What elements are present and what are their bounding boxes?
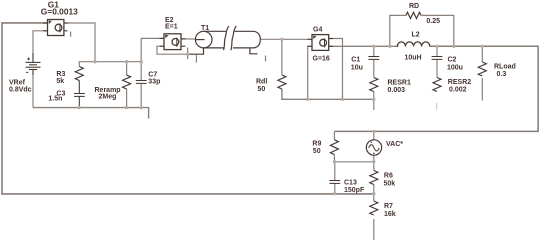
svg-text:G=16: G=16	[313, 56, 330, 63]
resistor RLoad	[478, 62, 486, 76]
svg-text:R6: R6	[384, 173, 393, 180]
resistor R7	[370, 201, 378, 215]
wire T1 A- pin step	[188, 48, 204, 54]
wire E2 out to T1	[181, 38, 196, 40]
svg-text:10u: 10u	[351, 65, 363, 72]
wire RD left leg	[390, 15, 406, 46]
wire battery bottom to lower bus	[32, 70, 34, 108]
svg-text:R3: R3	[56, 71, 65, 78]
resistor R6	[370, 171, 378, 185]
wire G1 output down to rail	[64, 23, 95, 62]
svg-text:R9: R9	[312, 140, 321, 147]
svg-text:RESR2: RESR2	[448, 79, 471, 86]
resistor RESR1	[370, 78, 378, 92]
wire dangling stub right of T1	[265, 56, 267, 62]
wire RLoad top stub	[481, 46, 483, 62]
capacitor C2	[432, 57, 443, 60]
svg-text:VRef: VRef	[9, 79, 26, 86]
wire dangling stub at E2 out-	[187, 48, 189, 60]
wire C13 bottom stub	[334, 183, 336, 193]
wire T1 B+ to G4 input	[260, 38, 312, 40]
svg-text:RD: RD	[409, 3, 419, 10]
wire R6 stubs	[373, 162, 375, 171]
wire VAC top	[373, 131, 375, 139]
svg-text:G4: G4	[313, 27, 322, 34]
svg-text:Rdl: Rdl	[256, 78, 267, 85]
capacitor C13	[329, 181, 340, 184]
wire G1 dangling output stub	[70, 32, 72, 37]
wire Rdl bottom + ground bus A	[282, 89, 374, 99]
resistor RESR2	[433, 78, 441, 92]
wire left edge loop	[2, 23, 374, 194]
svg-text:2Meg: 2Meg	[99, 93, 117, 100]
resistor RD horizontal	[406, 12, 421, 18]
wire C13 top stub	[334, 162, 336, 180]
svg-text:C2: C2	[448, 57, 457, 64]
wire RESR1 bottom stub	[373, 92, 375, 100]
wire G1 minus input to battery	[33, 31, 48, 62]
wire C1 stubs	[373, 46, 375, 56]
wire output rail right of L2 to right edge and down	[334, 46, 538, 131]
svg-text:16k: 16k	[384, 211, 396, 218]
wire output rail left of L2	[329, 45, 399, 47]
wire C2 stubs	[436, 46, 438, 56]
resistor R9	[330, 140, 338, 155]
wire R9 bottom to VAC bottom	[334, 155, 373, 162]
wire RESR2 dangling faint	[436, 103, 438, 110]
svg-text:1.5n: 1.5n	[48, 96, 62, 103]
svg-text:L2: L2	[412, 31, 420, 38]
svg-text:C7: C7	[148, 72, 157, 79]
svg-text:0.002: 0.002	[449, 86, 467, 93]
wire dangling below bus A end	[373, 99, 375, 110]
wire G4 in- down to bus A	[308, 46, 312, 99]
wire Rdl top	[281, 39, 283, 75]
wire dangling stub below E2/T1 wire	[195, 55, 197, 63]
svg-text:100u: 100u	[447, 65, 463, 72]
svg-text:C1: C1	[351, 57, 360, 64]
capacitor C3	[74, 94, 85, 108]
wire R7 bottom dangling	[373, 219, 375, 240]
svg-text:0.003: 0.003	[388, 87, 406, 94]
transmission line T1	[195, 26, 260, 50]
svg-text:10uH: 10uH	[405, 55, 422, 62]
VCVS E2	[160, 34, 186, 50]
VCCS G1	[43, 20, 68, 36]
svg-text:R7: R7	[384, 203, 393, 210]
resistor Reramp	[123, 62, 131, 108]
capacitor C1	[368, 57, 379, 60]
svg-text:5k: 5k	[56, 78, 64, 85]
svg-text:33p: 33p	[148, 79, 160, 86]
wire RLoad bottom dangling	[481, 78, 483, 101]
svg-text:50k: 50k	[384, 181, 396, 188]
wire T1 B- pin step	[250, 48, 258, 54]
svg-text:E=1: E=1	[165, 24, 178, 31]
wire E2 in- loop	[157, 46, 188, 54]
svg-text:RLoad: RLoad	[494, 64, 516, 71]
wire R9 top	[333, 131, 335, 139]
wire lower-left bus	[33, 108, 149, 119]
svg-text:150pF: 150pF	[344, 187, 365, 194]
wire RD right leg	[421, 15, 454, 46]
wire R7 top stub	[373, 194, 375, 201]
svg-text:0.3: 0.3	[497, 71, 507, 78]
source VAC	[366, 140, 381, 155]
wire G4 out+ down to bus A	[329, 39, 343, 100]
wire rail R3/Reramp/C7	[79, 38, 164, 66]
capacitor C7	[136, 62, 147, 108]
svg-text:50: 50	[258, 86, 266, 93]
svg-text:RESR1: RESR1	[388, 80, 411, 87]
svg-text:C13: C13	[344, 180, 357, 187]
svg-text:T1: T1	[201, 25, 209, 32]
svg-text:0.25: 0.25	[426, 18, 440, 25]
VCCS G4	[308, 35, 334, 51]
svg-text:G=0.0013: G=0.0013	[41, 7, 78, 17]
svg-text:VAC*: VAC*	[386, 141, 403, 148]
svg-text:0.8Vdc: 0.8Vdc	[9, 87, 32, 94]
resistor Rdl	[278, 75, 286, 89]
svg-text:50: 50	[313, 148, 321, 155]
inductor L2	[397, 42, 429, 47]
battery VRef	[26, 53, 41, 75]
resistor R3	[75, 67, 83, 81]
